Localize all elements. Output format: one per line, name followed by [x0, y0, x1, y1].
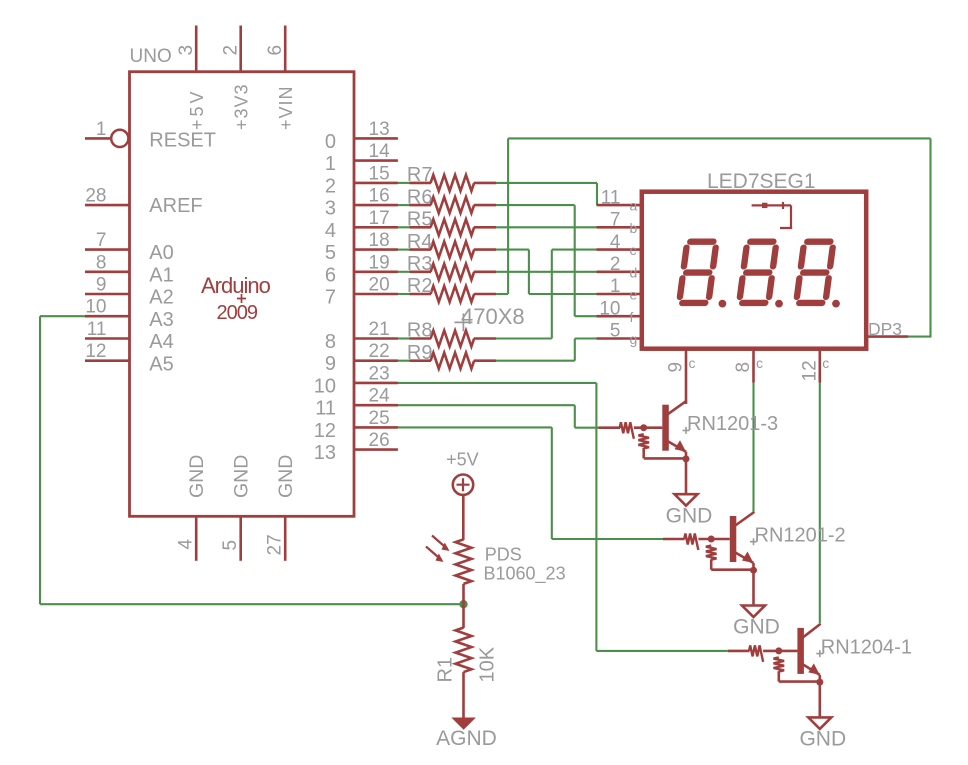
Arduino UNO body [130, 72, 355, 517]
svg-text:9: 9 [96, 275, 107, 296]
svg-text:1: 1 [610, 276, 621, 297]
wire R1 to AGND [462, 672, 465, 718]
svg-text:2: 2 [221, 45, 242, 56]
svg-text:+5V: +5V [446, 450, 479, 470]
emitter RN1201-2 with arrow [735, 552, 753, 564]
origin cross RN1201-3 [683, 427, 690, 434]
resistor R8 470 ohm [410, 331, 497, 347]
pin D1 (14) [354, 159, 398, 162]
svg-text:AREF: AREF [149, 195, 202, 217]
svg-text:16: 16 [369, 186, 390, 207]
svg-text:10: 10 [85, 297, 106, 318]
emitter RN1201-3 with arrow [668, 440, 686, 452]
svg-text:4: 4 [610, 232, 621, 253]
resistor R9 470 ohm [410, 353, 497, 369]
junction base RN1201-3 [640, 424, 647, 431]
transistor RN1204-1 base lead [728, 650, 750, 653]
segment digit 3 (8) [796, 242, 833, 303]
base-emitter resistor RN1201-2 [706, 546, 717, 560]
svg-text:R6: R6 [407, 186, 433, 208]
pin A2 (9) [85, 293, 130, 296]
svg-text:a: a [630, 198, 638, 214]
svg-text:1: 1 [325, 153, 336, 175]
svg-text:5: 5 [220, 540, 241, 551]
svg-text:GND: GND [275, 455, 297, 498]
svg-text:9: 9 [666, 362, 687, 373]
wire net A3 to PDS/R1 node [40, 316, 464, 604]
wire resistor to emitter node [779, 671, 820, 681]
decimal point 2 [775, 300, 783, 308]
wire net LED pin 8 to Q2 collector [752, 383, 754, 513]
svg-text:11: 11 [601, 187, 621, 208]
ground GND (RN1201-2) [742, 606, 765, 618]
svg-text:11: 11 [87, 319, 107, 340]
svg-text:11: 11 [315, 398, 336, 420]
svg-text:24: 24 [369, 386, 391, 407]
pin A4 (11) [85, 337, 130, 340]
pin g (5) [597, 337, 642, 340]
svg-text:GND: GND [799, 728, 846, 751]
junction base RN1204-1 [775, 647, 782, 654]
ground AGND [451, 718, 476, 730]
base resistor RN1201-2 [684, 534, 698, 551]
pin A0 (7) [85, 248, 130, 251]
origin cross RN1204-1 [816, 650, 823, 657]
svg-text:2: 2 [610, 254, 621, 275]
pin 8 (digit 2 common) [752, 349, 755, 383]
svg-text:10: 10 [314, 375, 336, 397]
svg-text:5: 5 [610, 321, 621, 342]
junction base RN1201-2 [708, 536, 715, 543]
pin D2 (15) [354, 182, 398, 185]
pin D5 (18) [354, 248, 398, 251]
svg-text:B1060_23: B1060_23 [484, 564, 566, 585]
svg-text:2: 2 [325, 175, 336, 197]
pin stub bottom 4 [195, 516, 198, 561]
resistor R7 470 ohm [410, 175, 497, 191]
svg-text:1: 1 [96, 119, 107, 140]
wire resistor to emitter node [644, 448, 686, 458]
value label 470X8 [454, 304, 524, 332]
pin D8 (21) [354, 337, 398, 340]
transistor RN1201-3 base bar [662, 405, 669, 451]
wire +5V to PDS [462, 495, 465, 540]
svg-text:A0: A0 [149, 242, 173, 264]
wire base to bar [698, 538, 729, 541]
svg-text:7: 7 [610, 210, 621, 231]
wire net Arduino pin 23 to Q3 base [398, 383, 728, 651]
resistor R2 470 ohm [410, 286, 497, 302]
svg-text:c: c [630, 242, 637, 258]
collector RN1204-1 [803, 624, 820, 638]
wire net R9 to LED pin g [496, 339, 598, 361]
svg-text:AGND: AGND [436, 727, 497, 750]
svg-text:c: c [822, 355, 829, 371]
base resistor RN1204-1 [749, 645, 763, 662]
wire node to R1 [462, 604, 465, 628]
svg-text:Arduino: Arduino [201, 273, 271, 298]
collector RN1201-3 [668, 401, 686, 415]
wire emitter to GND [818, 675, 821, 718]
wire base to bar [763, 650, 797, 653]
wire net R5 to LED pin b [496, 226, 598, 228]
wire net R8 to LED pin c [496, 250, 598, 339]
wire PDS to node [462, 584, 465, 604]
svg-text:15: 15 [369, 163, 390, 184]
segment digit 1 (8) [679, 242, 716, 303]
svg-text:18: 18 [369, 230, 390, 251]
transistor RN1204-1 base bar [797, 628, 804, 674]
junction node A3/PDS/R1 [459, 600, 467, 608]
svg-text:25: 25 [369, 408, 390, 429]
svg-text:28: 28 [85, 186, 106, 207]
pin stub bottom 5 [239, 516, 242, 561]
LED7SEG1 body [642, 192, 866, 349]
base-emitter resistor RN1201-3 [638, 434, 649, 448]
svg-text:3: 3 [176, 45, 197, 56]
pin stub top 3 [195, 26, 198, 72]
origin cross Arduino [237, 294, 246, 303]
svg-text:+VIN: +VIN [276, 85, 296, 130]
resistor R6 470 ohm [410, 197, 497, 213]
svg-text:4: 4 [325, 220, 336, 242]
wire net DP3 rail (R2 to LED DP3) [496, 138, 932, 336]
svg-text:UNO: UNO [130, 46, 172, 67]
pin A5 (12) [85, 359, 130, 362]
decimal point 3 [832, 300, 840, 308]
collector RN1201-2 [735, 512, 753, 526]
svg-text:A3: A3 [149, 309, 173, 331]
pin A3 (10) [85, 315, 130, 318]
pin b (7) [597, 226, 642, 229]
pin e (1) [597, 293, 642, 296]
junction emitter RN1201-2 [750, 567, 757, 574]
photoresistor PDS [426, 536, 472, 584]
svg-text:GND: GND [733, 616, 780, 639]
pin D6 (19) [354, 270, 398, 273]
svg-text:GND: GND [231, 455, 253, 498]
base-emitter resistor RN1204-1 [774, 657, 785, 671]
svg-text:8: 8 [96, 252, 107, 273]
pin a (11) [597, 204, 642, 207]
wire net Arduino pin 24 to Q1 base [398, 405, 599, 428]
svg-text:12: 12 [85, 341, 106, 362]
wire base to bar [634, 426, 662, 429]
svg-text:+3V3: +3V3 [232, 83, 252, 130]
wire stubs Arduino pins 15-22 to resistors [398, 183, 411, 361]
pin RESET (1) with inversion circle [85, 130, 128, 147]
svg-text:f: f [630, 309, 634, 325]
svg-text:12: 12 [799, 360, 820, 381]
svg-text:c: c [689, 355, 696, 371]
wire resistor to emitter node [711, 559, 753, 569]
pin D10 (23) [354, 382, 398, 385]
svg-text:PDS: PDS [485, 545, 522, 565]
pin stub bottom 27 [284, 516, 287, 561]
svg-text:LED7SEG1: LED7SEG1 [707, 170, 816, 193]
wire net R7 to LED pin a [496, 183, 597, 205]
svg-text:21: 21 [369, 319, 390, 340]
svg-text:10K: 10K [477, 646, 499, 682]
svg-text:7: 7 [325, 287, 336, 309]
svg-text:c: c [756, 355, 763, 371]
svg-text:e: e [630, 287, 638, 303]
pin stub top 6 [284, 26, 287, 72]
segment digit 2 (8) [739, 242, 776, 303]
pin stub top 2 [239, 26, 242, 72]
svg-text:17: 17 [369, 208, 390, 229]
svg-text:g: g [630, 331, 638, 347]
svg-text:2009: 2009 [217, 302, 258, 324]
wire net R6 to LED pin f [496, 205, 598, 316]
pin D9 (22) [354, 359, 398, 362]
pin c (4) [597, 248, 642, 251]
svg-text:10: 10 [599, 298, 620, 319]
svg-text:4: 4 [176, 539, 197, 550]
svg-text:RESET: RESET [149, 129, 216, 151]
svg-text:R1: R1 [435, 657, 457, 683]
svg-text:22: 22 [369, 341, 390, 362]
svg-text:GND: GND [666, 504, 713, 527]
pin D13 (26) [354, 448, 398, 451]
wire net Arduino pin 25 to Q2 base [398, 427, 664, 539]
pin 12 (digit 3 common) [818, 349, 821, 383]
resistor R5 470 ohm [410, 219, 497, 235]
decimal point 1 [719, 300, 727, 308]
svg-text:14: 14 [369, 141, 391, 162]
svg-text:23: 23 [369, 363, 390, 384]
svg-text:9: 9 [325, 353, 336, 375]
svg-text:R7: R7 [407, 164, 433, 186]
svg-text:8: 8 [733, 362, 754, 373]
svg-text:+5V: +5V [187, 88, 207, 130]
svg-text:7: 7 [96, 230, 107, 251]
svg-text:8: 8 [325, 331, 336, 353]
junction emitter RN1204-1 [816, 679, 823, 686]
base resistor RN1201-3 [620, 422, 634, 439]
svg-text:GND: GND [186, 455, 208, 498]
svg-text:27: 27 [265, 534, 286, 555]
resistor R1 10K [456, 628, 472, 672]
wire net R4 to LED pin e [496, 250, 598, 294]
transistor RN1201-2 base bar [730, 516, 737, 562]
svg-text:A1: A1 [149, 265, 173, 287]
junction emitter RN1201-3 [683, 455, 690, 462]
svg-text:R4: R4 [407, 231, 433, 253]
pin D4 (17) [354, 226, 398, 229]
svg-text:b: b [630, 220, 638, 236]
common anode indicator mark [752, 202, 793, 228]
pin D12 (25) [354, 426, 398, 429]
svg-text:RN1204-1: RN1204-1 [821, 636, 912, 658]
transistor RN1201-3 base lead [599, 426, 621, 429]
svg-text:DP3: DP3 [868, 319, 902, 339]
svg-text:20: 20 [369, 275, 390, 296]
svg-text:R3: R3 [407, 253, 433, 275]
svg-text:12: 12 [314, 420, 336, 442]
pin DP3 [866, 335, 908, 338]
svg-text:3: 3 [325, 198, 336, 220]
pin D3 (16) [354, 204, 398, 207]
svg-text:26: 26 [369, 430, 390, 451]
origin cross RN1201-2 [750, 538, 757, 545]
resistor R4 470 ohm [410, 242, 497, 258]
svg-text:470X8: 470X8 [461, 304, 525, 329]
wire emitter to GND [752, 563, 755, 606]
svg-text:R9: R9 [407, 342, 433, 364]
emitter RN1204-1 with arrow [803, 663, 820, 675]
wire net R3 to LED pin d [496, 271, 598, 273]
wire net LED pin 12 to Q3 collector [819, 383, 821, 624]
pin 9 (digit 1 common) [685, 349, 688, 404]
svg-text:R8: R8 [407, 320, 433, 342]
svg-text:19: 19 [369, 252, 390, 273]
svg-text:d: d [630, 264, 638, 280]
svg-text:13: 13 [314, 442, 336, 464]
svg-text:6: 6 [265, 45, 286, 56]
svg-text:RN1201-2: RN1201-2 [755, 525, 846, 547]
svg-text:5: 5 [325, 242, 336, 264]
pin D7 (20) [354, 293, 398, 296]
svg-text:A4: A4 [149, 331, 173, 353]
pin A1 (8) [85, 270, 130, 273]
pin f (10) [597, 315, 642, 318]
svg-text:6: 6 [325, 264, 336, 286]
svg-text:R5: R5 [407, 209, 433, 231]
svg-text:R2: R2 [407, 275, 433, 297]
svg-text:13: 13 [369, 119, 390, 140]
svg-text:RN1201-3: RN1201-3 [687, 413, 778, 435]
ground GND (RN1201-3) [675, 494, 698, 506]
wire emitter to GND [685, 452, 688, 495]
svg-text:A2: A2 [149, 287, 173, 309]
supply +5V [453, 475, 473, 495]
pin d (2) [597, 270, 642, 273]
svg-text:A5: A5 [149, 353, 173, 375]
resistor R3 470 ohm [410, 264, 497, 280]
pin AREF (28) [85, 204, 130, 207]
svg-text:0: 0 [325, 131, 336, 153]
transistor RN1201-2 base lead [663, 538, 685, 541]
pin D0 (13) [354, 137, 398, 140]
ground GND (RN1204-1) [808, 717, 831, 729]
pin D11 (24) [354, 404, 398, 407]
